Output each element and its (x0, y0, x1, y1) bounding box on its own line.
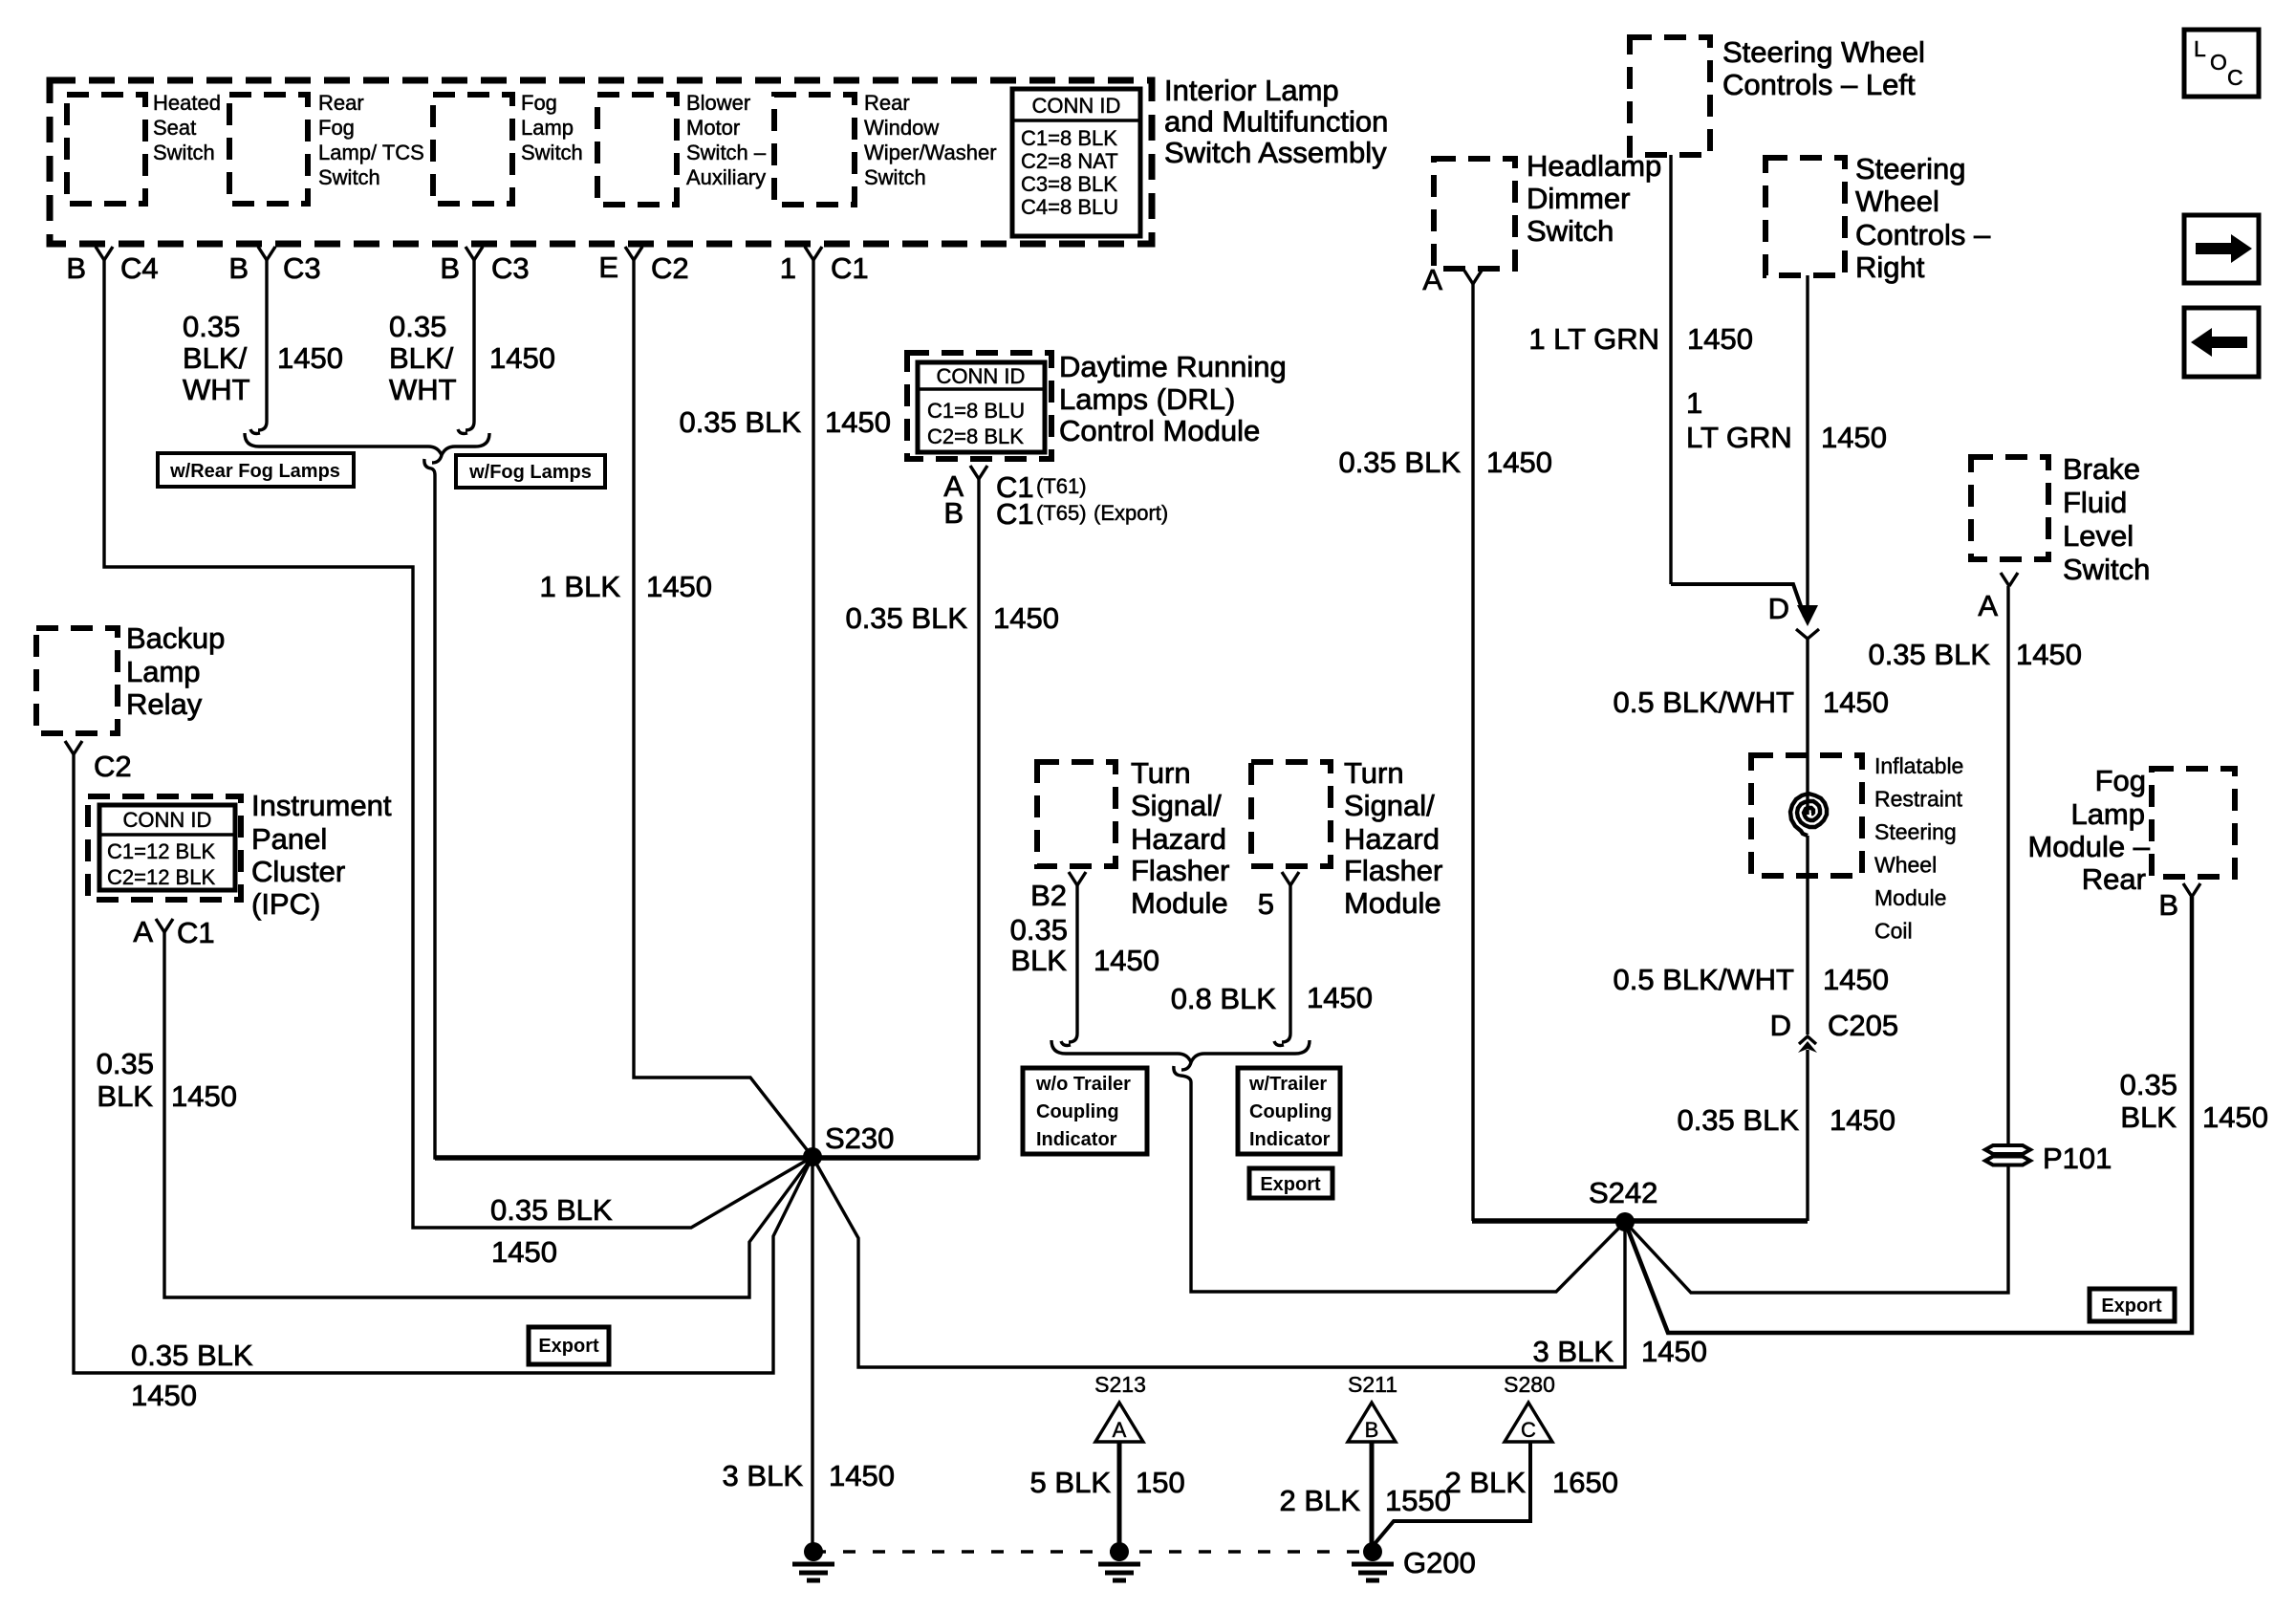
svg-text:L: L (2194, 36, 2206, 61)
svg-text:Indicator: Indicator (1249, 1129, 1331, 1150)
svg-text:1 BLK: 1 BLK (540, 570, 621, 603)
svg-text:0.35 BLK: 0.35 BLK (845, 601, 967, 635)
svg-text:Turn: Turn (1131, 756, 1191, 790)
svg-text:Fluid: Fluid (2063, 486, 2127, 519)
svg-text:0.5 BLK/WHT: 0.5 BLK/WHT (1614, 686, 1795, 719)
svg-text:Flasher: Flasher (1344, 854, 1442, 887)
svg-text:1450: 1450 (1830, 1103, 1895, 1137)
svg-text:Switch: Switch (521, 141, 583, 164)
svg-text:1450: 1450 (277, 341, 343, 375)
svg-text:A: A (133, 915, 153, 948)
svg-text:1450: 1450 (1307, 981, 1373, 1014)
svg-text:C2=8 BLK: C2=8 BLK (927, 425, 1024, 448)
svg-text:D: D (1768, 592, 1789, 625)
svg-text:B2: B2 (1030, 879, 1067, 912)
svg-text:Right: Right (1855, 250, 1925, 284)
svg-text:Rear: Rear (864, 91, 910, 115)
svg-text:Interior Lamp: Interior Lamp (1164, 74, 1339, 107)
svg-text:Hazard: Hazard (1131, 822, 1226, 856)
svg-text:Switch Assembly: Switch Assembly (1164, 136, 1387, 169)
svg-text:C1=8 BLU: C1=8 BLU (927, 399, 1025, 423)
svg-text:0.5 BLK/WHT: 0.5 BLK/WHT (1614, 963, 1795, 996)
svg-text:1450: 1450 (1094, 944, 1159, 977)
svg-text:(T65): (T65) (1036, 501, 1087, 525)
svg-text:1 LT GRN: 1 LT GRN (1528, 322, 1659, 356)
svg-text:Module –: Module – (2027, 830, 2150, 863)
svg-text:Lamp/ TCS: Lamp/ TCS (318, 141, 424, 164)
svg-text:Relay: Relay (126, 687, 203, 721)
svg-text:C205: C205 (1828, 1009, 1898, 1042)
svg-text:1450: 1450 (489, 341, 555, 375)
svg-text:Signal/: Signal/ (1131, 789, 1222, 822)
svg-text:1450: 1450 (1823, 686, 1889, 719)
svg-text:Export: Export (1260, 1174, 1321, 1195)
svg-text:0.35 BLK: 0.35 BLK (1868, 638, 1990, 671)
svg-text:1550: 1550 (1385, 1484, 1451, 1517)
svg-text:1450: 1450 (993, 601, 1059, 635)
svg-text:C1: C1 (831, 251, 869, 285)
svg-text:Coupling: Coupling (1249, 1101, 1332, 1122)
svg-text:(Export): (Export) (1094, 501, 1168, 525)
svg-text:Signal/: Signal/ (1344, 789, 1435, 822)
svg-text:w/Fog Lamps: w/Fog Lamps (468, 462, 592, 483)
svg-text:3 BLK: 3 BLK (1533, 1335, 1614, 1368)
svg-text:Steering Wheel: Steering Wheel (1722, 35, 1925, 69)
svg-text:E: E (598, 250, 618, 284)
svg-text:B: B (2158, 888, 2178, 922)
svg-text:Lamp: Lamp (2070, 797, 2145, 831)
svg-text:1450: 1450 (829, 1459, 895, 1492)
svg-text:0.35: 0.35 (389, 310, 446, 343)
svg-text:Switch –: Switch – (686, 141, 767, 164)
svg-text:1450: 1450 (491, 1235, 557, 1269)
svg-text:Fog: Fog (521, 91, 557, 115)
svg-text:BLK: BLK (2120, 1100, 2177, 1134)
svg-text:C2=8 NAT: C2=8 NAT (1021, 149, 1118, 173)
svg-text:Hazard: Hazard (1344, 822, 1440, 856)
svg-text:0.35: 0.35 (2120, 1068, 2177, 1101)
svg-text:Switch: Switch (864, 165, 926, 189)
svg-text:Window: Window (864, 116, 939, 140)
svg-text:Export: Export (538, 1336, 599, 1357)
svg-text:C2: C2 (94, 750, 132, 783)
svg-text:Module: Module (1131, 886, 1228, 920)
svg-text:Instrument: Instrument (251, 789, 392, 822)
svg-text:0.35 BLK: 0.35 BLK (131, 1339, 253, 1372)
svg-text:Brake: Brake (2063, 452, 2140, 486)
svg-text:Lamps (DRL): Lamps (DRL) (1059, 382, 1235, 416)
svg-text:B: B (66, 251, 86, 285)
svg-text:C: C (1521, 1418, 1536, 1442)
svg-text:2 BLK: 2 BLK (1445, 1466, 1527, 1499)
svg-text:3 BLK: 3 BLK (723, 1459, 804, 1492)
svg-text:B: B (1365, 1418, 1379, 1442)
svg-text:1450: 1450 (1823, 963, 1889, 996)
svg-text:Inflatable: Inflatable (1874, 753, 1963, 778)
svg-text:LT GRN: LT GRN (1686, 421, 1792, 454)
svg-text:Fog: Fog (2095, 764, 2146, 797)
svg-text:C1=8 BLK: C1=8 BLK (1021, 126, 1117, 150)
svg-text:1450: 1450 (2016, 638, 2082, 671)
svg-text:2 BLK: 2 BLK (1280, 1484, 1361, 1517)
svg-text:0.35: 0.35 (97, 1047, 154, 1080)
svg-text:Rear: Rear (2082, 862, 2146, 896)
svg-text:A: A (1422, 263, 1442, 296)
svg-text:WHT: WHT (183, 373, 250, 406)
svg-text:Indicator: Indicator (1036, 1129, 1117, 1150)
svg-text:Flasher: Flasher (1131, 854, 1229, 887)
svg-text:Auxiliary: Auxiliary (686, 165, 766, 189)
svg-text:Coupling: Coupling (1036, 1101, 1119, 1122)
svg-text:Wiper/Washer: Wiper/Washer (864, 141, 997, 164)
svg-text:1: 1 (1686, 386, 1702, 420)
svg-text:BLK: BLK (1010, 944, 1067, 977)
svg-text:Motor: Motor (686, 116, 740, 140)
svg-text:Export: Export (2101, 1295, 2162, 1317)
svg-text:Panel: Panel (251, 822, 327, 856)
svg-text:Rear: Rear (318, 91, 364, 115)
svg-text:CONN ID: CONN ID (1032, 94, 1121, 118)
svg-text:B: B (228, 251, 249, 285)
svg-text:Heated: Heated (153, 91, 221, 115)
svg-text:S280: S280 (1504, 1372, 1555, 1397)
svg-text:BLK: BLK (97, 1079, 153, 1113)
svg-text:and Multifunction: and Multifunction (1164, 105, 1388, 139)
svg-text:0.8 BLK: 0.8 BLK (1171, 982, 1277, 1015)
svg-text:B: B (440, 251, 460, 285)
svg-text:Lamp: Lamp (521, 116, 574, 140)
svg-text:Daytime Running: Daytime Running (1059, 350, 1287, 383)
svg-text:1450: 1450 (825, 405, 891, 439)
svg-text:Switch: Switch (1527, 214, 1614, 248)
svg-text:Switch: Switch (318, 165, 380, 189)
svg-text:CONN ID: CONN ID (937, 364, 1026, 388)
svg-text:C1: C1 (177, 916, 215, 949)
svg-text:w/Rear Fog Lamps: w/Rear Fog Lamps (169, 461, 340, 482)
svg-text:S213: S213 (1094, 1372, 1146, 1397)
svg-text:150: 150 (1136, 1466, 1185, 1499)
svg-text:Switch: Switch (2063, 553, 2150, 586)
svg-text:Module: Module (1874, 885, 1946, 910)
svg-text:1450: 1450 (1687, 322, 1753, 356)
svg-text:0.35 BLK: 0.35 BLK (1338, 446, 1461, 479)
svg-text:C1=12 BLK: C1=12 BLK (107, 839, 215, 863)
svg-text:A: A (1978, 589, 1998, 622)
svg-text:Restraint: Restraint (1874, 787, 1963, 812)
svg-text:w/Trailer: w/Trailer (1248, 1074, 1327, 1095)
svg-text:C3=8 BLK: C3=8 BLK (1021, 172, 1117, 196)
svg-text:1450: 1450 (171, 1079, 237, 1113)
svg-text:Controls –: Controls – (1855, 218, 1991, 251)
svg-text:Coil: Coil (1874, 919, 1913, 944)
svg-text:BLK/: BLK/ (389, 341, 454, 375)
svg-text:Turn: Turn (1344, 756, 1404, 790)
svg-text:Seat: Seat (153, 116, 196, 140)
svg-text:BLK/: BLK/ (183, 341, 248, 375)
svg-text:S230: S230 (825, 1121, 894, 1155)
svg-text:C2=12 BLK: C2=12 BLK (107, 865, 215, 889)
svg-text:0.35: 0.35 (183, 310, 240, 343)
svg-text:0.35 BLK: 0.35 BLK (679, 405, 801, 439)
svg-text:w/o Trailer: w/o Trailer (1035, 1074, 1131, 1095)
svg-text:1450: 1450 (2202, 1100, 2268, 1134)
svg-text:C3: C3 (491, 251, 530, 285)
svg-text:Lamp: Lamp (126, 655, 201, 688)
svg-text:C3: C3 (283, 251, 321, 285)
svg-text:1450: 1450 (646, 570, 712, 603)
svg-text:Steering: Steering (1855, 152, 1965, 185)
svg-text:A: A (1113, 1418, 1127, 1442)
svg-text:Blower: Blower (686, 91, 750, 115)
svg-text:G200: G200 (1403, 1546, 1476, 1579)
svg-text:Wheel: Wheel (1874, 853, 1937, 878)
svg-text:1450: 1450 (1486, 446, 1552, 479)
svg-text:Control Module: Control Module (1059, 414, 1260, 447)
svg-text:Controls – Left: Controls – Left (1722, 68, 1916, 101)
svg-text:Fog: Fog (318, 116, 355, 140)
svg-text:WHT: WHT (389, 373, 457, 406)
svg-text:0.35: 0.35 (1010, 913, 1068, 947)
svg-text:CONN ID: CONN ID (123, 808, 212, 832)
svg-text:Module: Module (1344, 886, 1441, 920)
svg-text:1650: 1650 (1552, 1466, 1618, 1499)
svg-text:Wheel: Wheel (1855, 185, 1939, 218)
svg-text:Steering: Steering (1874, 819, 1957, 844)
svg-text:5 BLK: 5 BLK (1030, 1466, 1112, 1499)
svg-text:Headlamp: Headlamp (1527, 149, 1661, 183)
svg-text:Cluster: Cluster (251, 855, 345, 888)
svg-text:1450: 1450 (131, 1379, 197, 1412)
svg-text:O: O (2210, 50, 2227, 75)
svg-text:Switch: Switch (153, 141, 215, 164)
svg-text:0.35 BLK: 0.35 BLK (490, 1193, 613, 1227)
svg-text:1450: 1450 (1641, 1335, 1707, 1368)
svg-text:D: D (1770, 1009, 1791, 1042)
svg-text:0.35 BLK: 0.35 BLK (1677, 1103, 1799, 1137)
svg-text:S242: S242 (1589, 1176, 1657, 1209)
svg-text:(IPC): (IPC) (251, 887, 320, 921)
svg-text:1450: 1450 (1821, 421, 1887, 454)
svg-text:C: C (2227, 65, 2243, 90)
svg-text:5: 5 (1258, 887, 1274, 921)
svg-text:Backup: Backup (126, 621, 225, 655)
svg-text:C4: C4 (120, 251, 159, 285)
svg-text:(T61): (T61) (1036, 474, 1087, 498)
svg-text:B: B (943, 496, 964, 530)
svg-text:C1: C1 (996, 497, 1034, 531)
svg-text:C4=8 BLU: C4=8 BLU (1021, 195, 1118, 219)
svg-text:1: 1 (780, 251, 796, 285)
svg-text:Dimmer: Dimmer (1527, 182, 1631, 215)
svg-text:C2: C2 (651, 251, 689, 285)
svg-text:P101: P101 (2043, 1142, 2112, 1175)
svg-text:Level: Level (2063, 519, 2134, 553)
svg-text:S211: S211 (1348, 1372, 1397, 1397)
